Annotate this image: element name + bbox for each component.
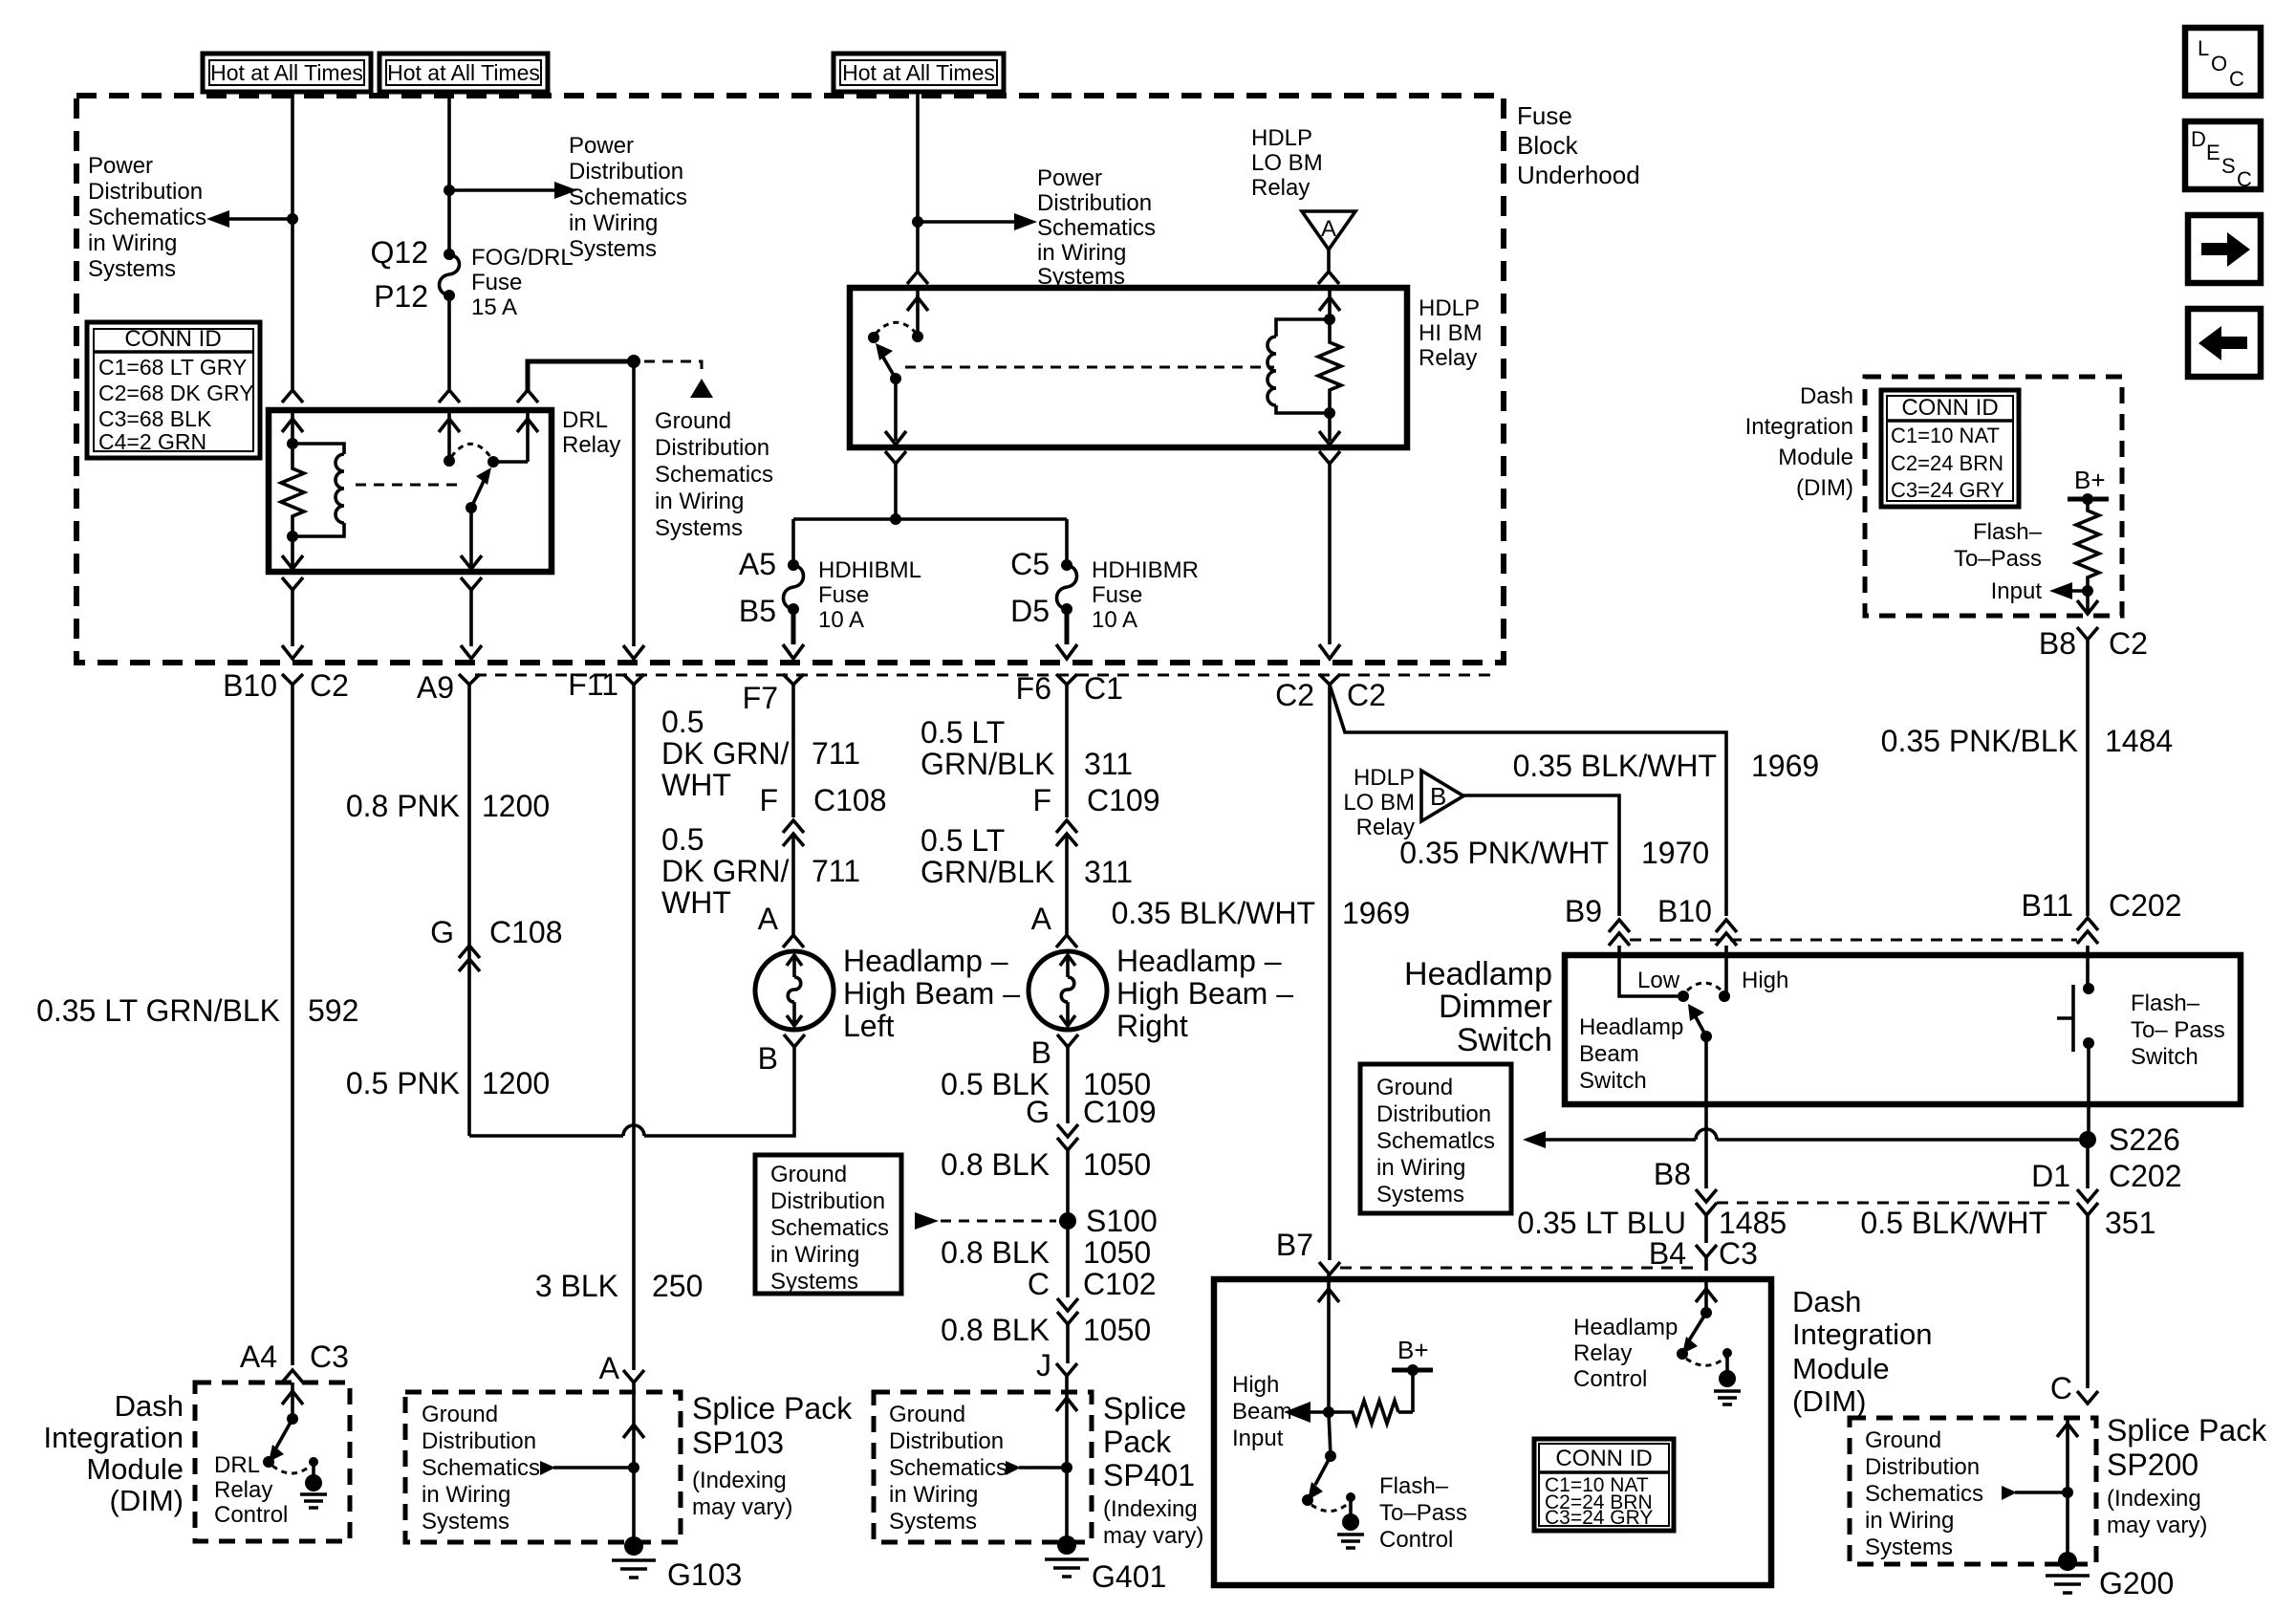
svg-text:DK GRN/: DK GRN/ [661, 736, 789, 771]
wire C2 feed down to connector row [1328, 464, 1332, 644]
svg-text:S100: S100 [1086, 1204, 1158, 1238]
svg-text:G: G [430, 915, 454, 949]
svg-text:Schematics: Schematics [1865, 1481, 1983, 1507]
svg-text:Systems: Systems [889, 1509, 977, 1535]
node junction hot2 [444, 185, 455, 196]
svg-text:Ground: Ground [1865, 1427, 1941, 1453]
DESC box [2185, 121, 2261, 189]
wire SP103 to ground [632, 1468, 636, 1541]
svg-text:Right: Right [1116, 1009, 1188, 1043]
left arrow box [2188, 309, 2261, 377]
svg-text:B8: B8 [1654, 1157, 1691, 1191]
svg-text:Block: Block [1517, 131, 1579, 160]
svg-text:Fuse: Fuse [818, 582, 869, 608]
node DRL switch left contact [447, 410, 451, 461]
svg-text:J: J [1036, 1348, 1051, 1382]
svg-text:C3: C3 [310, 1339, 349, 1374]
svg-text:FOG/DRL: FOG/DRL [471, 245, 574, 271]
svg-text:S226: S226 [2109, 1122, 2180, 1157]
svg-text:311: 311 [1084, 855, 1133, 889]
svg-text:Distribution: Distribution [422, 1428, 536, 1454]
node Low contact [1678, 991, 1689, 1002]
wire left fuse drop [791, 519, 795, 565]
connector fork into HI BM relay switch pin [907, 272, 928, 284]
svg-text:Splice: Splice [1103, 1391, 1186, 1426]
svg-text:Headlamp –: Headlamp – [843, 944, 1008, 978]
connector B10 double chevron up [1716, 920, 1737, 946]
svg-text:0.8 PNK: 0.8 PNK [346, 789, 460, 823]
svg-text:1200: 1200 [482, 789, 550, 823]
resistor HI BM internal [1318, 319, 1341, 413]
svg-text:0.35 LT GRN/BLK: 0.35 LT GRN/BLK [36, 993, 280, 1028]
svg-text:(Indexing: (Indexing [2107, 1486, 2201, 1512]
svg-text:0.5 LT: 0.5 LT [921, 823, 1005, 858]
svg-text:D5: D5 [1010, 594, 1050, 628]
svg-text:in Wiring: in Wiring [770, 1242, 859, 1268]
DIM box bottom right [1214, 1279, 1771, 1585]
svg-text:(Indexing: (Indexing [1103, 1496, 1198, 1522]
node HI BM coil bottom [1324, 407, 1335, 419]
svg-text:0.5 PNK: 0.5 PNK [346, 1066, 460, 1100]
relay link dashed DRL [356, 484, 461, 487]
svg-text:Hot at All Times: Hot at All Times [842, 60, 995, 85]
DRL Relay box [269, 410, 552, 572]
wire flash to pass down to S226 [2087, 1043, 2090, 1140]
svg-text:Relay: Relay [1573, 1340, 1632, 1366]
svg-text:10 A: 10 A [1092, 607, 1137, 633]
ground contact DRL relay control [309, 1457, 318, 1467]
node SP200 junction [2062, 1487, 2073, 1498]
svg-text:B: B [758, 1041, 778, 1076]
svg-text:Input: Input [1991, 578, 2043, 604]
switch arm flash to pass control [1315, 1456, 1331, 1485]
svg-text:A: A [599, 1351, 620, 1385]
svg-text:Distribution: Distribution [1376, 1101, 1491, 1127]
connector fork below DRL pin coil [282, 577, 303, 590]
svg-text:Control: Control [214, 1502, 288, 1528]
headlamp high beam right bulb [1029, 951, 1107, 1030]
svg-text:G: G [1026, 1095, 1050, 1129]
wire B10 into dimmer box [1724, 946, 1728, 996]
svg-text:S: S [2221, 154, 2236, 178]
wire into SP200 [2066, 1418, 2069, 1492]
wire 0.5 PNK corner to left headlamp ground with hop [469, 1046, 794, 1136]
svg-text:0.5: 0.5 [661, 705, 704, 739]
wire switch common to fuse feed junction [894, 464, 898, 519]
ground distribution triangle pointer [690, 379, 713, 398]
fuse HDHIBML 10A [788, 559, 799, 571]
LOC box [2185, 28, 2261, 96]
svg-text:Schematics: Schematics [1037, 215, 1156, 241]
fuse FOG/DRL 15A [444, 249, 455, 260]
inductor DRL coil loop [292, 444, 344, 536]
wire arrow from schematics SP200 [2002, 1486, 2017, 1500]
wire dashed to ground distribution box mid [941, 1220, 1056, 1223]
svg-text:C108: C108 [813, 783, 887, 817]
svg-text:F11: F11 [568, 667, 618, 702]
svg-text:Ground: Ground [889, 1402, 965, 1427]
resistor flash to pass input [2076, 499, 2099, 591]
svg-text:C: C [1028, 1267, 1050, 1301]
svg-text:(Indexing: (Indexing [692, 1468, 787, 1493]
ground distribution box mid solid [755, 1155, 901, 1294]
svg-text:Distribution: Distribution [88, 179, 203, 205]
switch arm headlamp beam [1695, 1015, 1706, 1036]
svg-text:Schematics: Schematics [889, 1455, 1007, 1481]
svg-text:HDHIBMR: HDHIBMR [1092, 557, 1199, 583]
svg-text:High Beam –: High Beam – [843, 976, 1020, 1011]
svg-text:C2: C2 [1347, 678, 1386, 712]
svg-text:Integration: Integration [1792, 1317, 1933, 1351]
svg-text:C1: C1 [1084, 671, 1123, 706]
svg-text:Headlamp –: Headlamp – [1116, 944, 1282, 978]
svg-text:in Wiring: in Wiring [1865, 1508, 1954, 1534]
svg-text:B+: B+ [1397, 1336, 1429, 1364]
svg-text:B11: B11 [2021, 888, 2073, 923]
node SP401 junction [1061, 1462, 1072, 1473]
svg-text:Module: Module [1792, 1352, 1890, 1385]
svg-text:C2: C2 [310, 668, 349, 703]
connector F11 [623, 674, 644, 685]
svg-text:C1=68 LT GRY: C1=68 LT GRY [98, 355, 247, 380]
connector B headlamp left [784, 1034, 805, 1047]
svg-text:Systems: Systems [88, 256, 176, 282]
wire SP200 to ground [2066, 1492, 2069, 1557]
svg-text:Ground: Ground [422, 1402, 498, 1427]
svg-text:Dash: Dash [1792, 1285, 1861, 1318]
switch throw dashed arc beam [1687, 983, 1722, 991]
svg-text:Flash–: Flash– [1973, 519, 2043, 545]
svg-text:Ground: Ground [770, 1162, 847, 1187]
svg-text:Distribution: Distribution [655, 435, 769, 461]
dashed connector line DIM top [1340, 1267, 1696, 1270]
svg-text:C3=68 BLK: C3=68 BLK [98, 406, 212, 431]
ground G103 [624, 1536, 643, 1556]
node junction hot3 [912, 216, 923, 228]
node ground distribution junction [627, 355, 640, 368]
svg-text:F7: F7 [743, 681, 778, 715]
svg-text:351: 351 [2105, 1206, 2155, 1240]
svg-text:C1=10 NAT: C1=10 NAT [1891, 424, 2000, 447]
Hot at All Times box 2 [379, 54, 548, 92]
svg-text:Hot at All Times: Hot at All Times [210, 60, 363, 85]
wire B8 to B4 [1704, 1215, 1708, 1243]
svg-text:WHT: WHT [661, 885, 731, 920]
connector A9 [459, 674, 480, 685]
wire S226 to ground distribution arrow with hop [1544, 1138, 2079, 1142]
svg-text:(DIM): (DIM) [110, 1484, 184, 1517]
svg-text:HDLP: HDLP [1419, 295, 1480, 321]
connector C2 C2 [1319, 674, 1340, 685]
wire B11 into flash to pass switch [2086, 946, 2090, 989]
wire D1 351 down [2086, 1215, 2090, 1388]
wire right fuse drop [1065, 519, 1069, 565]
svg-text:15 A: 15 A [471, 294, 517, 320]
node HI BM left contact [868, 332, 879, 343]
svg-text:B: B [1430, 782, 1446, 811]
svg-text:(DIM): (DIM) [1792, 1384, 1866, 1418]
svg-text:Headlamp: Headlamp [1573, 1315, 1678, 1340]
node SP103 junction [628, 1462, 639, 1473]
svg-text:in Wiring: in Wiring [569, 210, 658, 236]
svg-text:Left: Left [843, 1009, 894, 1043]
svg-text:P12: P12 [374, 279, 428, 314]
svg-text:WHT: WHT [661, 768, 731, 802]
Headlamp Dimmer Switch box [1565, 955, 2241, 1104]
headlamp high beam left bulb [755, 951, 834, 1030]
svg-text:Schematics: Schematics [88, 205, 206, 230]
svg-text:LO BM: LO BM [1251, 150, 1323, 176]
svg-text:SP103: SP103 [692, 1426, 784, 1460]
dashed connector line C202 top [1630, 939, 2077, 942]
svg-text:Schematlcs: Schematlcs [1376, 1128, 1495, 1154]
svg-text:Beam: Beam [1232, 1399, 1292, 1425]
svg-text:in Wiring: in Wiring [889, 1482, 978, 1508]
svg-text:B10: B10 [1657, 894, 1712, 928]
wire arrow flash to pass input [2070, 589, 2088, 593]
DIM dashed box bottom left [195, 1382, 350, 1541]
svg-text:Distribution: Distribution [889, 1428, 1004, 1454]
svg-text:1969: 1969 [1342, 896, 1410, 930]
svg-text:C102: C102 [1083, 1267, 1157, 1301]
svg-text:A9: A9 [417, 670, 454, 705]
wire hot3 feed down [916, 92, 920, 271]
connector fork below HI BM coil [1319, 451, 1340, 464]
wire into SP103 [632, 1392, 636, 1468]
CONN ID table DIM top right [1881, 390, 2019, 507]
svg-text:B5: B5 [739, 594, 776, 628]
svg-text:C4=2 GRN: C4=2 GRN [98, 429, 206, 454]
node DRL coil top [287, 438, 298, 449]
wire flash input down to box edge [2086, 591, 2090, 612]
svg-text:Switch: Switch [2131, 1044, 2199, 1070]
wire into HI BM switch contact [916, 288, 920, 337]
svg-text:Ground: Ground [1376, 1075, 1453, 1100]
wire arrow to Power Distribution right [449, 188, 556, 192]
connector B11 double chevron up [2077, 918, 2098, 944]
svg-text:(DIM): (DIM) [1796, 475, 1853, 501]
svg-text:C2=24 BRN: C2=24 BRN [1891, 451, 2004, 475]
wire triangle A to relay box [1327, 250, 1331, 271]
node flash to pass top contact [2083, 983, 2094, 994]
triangle A relay coil ref [1302, 211, 1355, 250]
svg-text:CONN ID: CONN ID [124, 326, 221, 352]
wire arrow from schematics SP103 [540, 1461, 555, 1475]
svg-text:Underhood: Underhood [1517, 161, 1640, 189]
svg-text:O: O [2211, 52, 2227, 76]
svg-text:C: C [2237, 167, 2252, 191]
svg-text:GRN/BLK: GRN/BLK [921, 747, 1054, 781]
svg-text:Power: Power [88, 153, 153, 179]
svg-text:1050: 1050 [1083, 1313, 1151, 1347]
svg-text:Pack: Pack [1103, 1425, 1172, 1459]
Hot at All Times box 1 [203, 54, 371, 92]
svg-text:A5: A5 [739, 547, 776, 581]
svg-text:1200: 1200 [482, 1066, 550, 1100]
svg-text:A4: A4 [240, 1339, 277, 1374]
triangle B relay contact ref [1421, 771, 1463, 821]
connector fork below DRL switch common [461, 577, 482, 590]
node flash to pass bottom contact [2083, 1037, 2094, 1049]
wire high beam input junction [1329, 1410, 1341, 1414]
svg-text:Systems: Systems [1376, 1182, 1464, 1208]
wire fuse feed horizontal [793, 517, 1067, 521]
wire F11 down from junction [632, 361, 636, 646]
svg-text:Schematics: Schematics [422, 1455, 540, 1481]
svg-text:D: D [2191, 127, 2206, 151]
wire 1484 down [2086, 640, 2090, 916]
svg-text:may vary): may vary) [692, 1494, 792, 1520]
connector fork into HI BM relay coil pin [1318, 272, 1339, 284]
svg-text:To–Pass: To–Pass [1954, 546, 2042, 572]
svg-text:Systems: Systems [655, 515, 743, 541]
svg-text:GRN/BLK: GRN/BLK [921, 855, 1054, 889]
svg-text:Flash–: Flash– [2131, 991, 2200, 1016]
svg-text:10 A: 10 A [818, 607, 864, 633]
svg-text:Dimmer: Dimmer [1439, 989, 1552, 1025]
svg-text:Power: Power [569, 133, 634, 159]
svg-text:Schematics: Schematics [569, 185, 687, 210]
svg-text:C202: C202 [2109, 1159, 2182, 1193]
Splice Pack SP200 dashed box [1850, 1418, 2096, 1564]
HDLP HI BM Relay box [850, 288, 1407, 447]
ground contact headlamp relay control [1722, 1348, 1732, 1358]
svg-text:0.5 BLK/WHT: 0.5 BLK/WHT [1860, 1206, 2047, 1240]
wire beam switch common down [1704, 1036, 1708, 1188]
svg-text:Control: Control [1573, 1366, 1647, 1392]
CONN ID table fuse block [87, 322, 260, 458]
svg-text:1970: 1970 [1641, 836, 1709, 870]
svg-text:DRL: DRL [562, 407, 608, 433]
wire B7 down inside DIM [1327, 1274, 1331, 1279]
switch arm DRL [471, 479, 485, 508]
svg-text:D1: D1 [2031, 1159, 2070, 1193]
svg-text:Systems: Systems [569, 236, 657, 262]
svg-text:F: F [1032, 783, 1051, 817]
switch arm headlamp relay control [1689, 1313, 1706, 1340]
svg-text:0.35 BLK/WHT: 0.35 BLK/WHT [1513, 749, 1717, 783]
svg-text:0.8 BLK: 0.8 BLK [941, 1313, 1050, 1347]
svg-text:0.35 BLK/WHT: 0.35 BLK/WHT [1112, 896, 1315, 930]
svg-text:in Wiring: in Wiring [422, 1482, 510, 1508]
svg-text:DRL: DRL [214, 1452, 260, 1478]
svg-text:Schematics: Schematics [655, 462, 773, 488]
switch throw dashed arc DRL [451, 444, 491, 458]
svg-text:0.8 BLK: 0.8 BLK [941, 1235, 1050, 1270]
svg-text:Relay: Relay [1251, 175, 1310, 201]
svg-text:C3=24 GRY: C3=24 GRY [1891, 478, 2004, 502]
node DRL switch right contact [493, 410, 528, 462]
svg-text:LO BM: LO BM [1343, 790, 1415, 816]
svg-text:High Beam –: High Beam – [1116, 976, 1293, 1011]
Hot at All Times box 3 [834, 54, 1004, 92]
svg-text:C202: C202 [2109, 888, 2182, 923]
connector fork B8 C2 below DIM [2077, 627, 2098, 640]
ground G401 [1057, 1535, 1076, 1555]
svg-text:0.35 PNK/WHT: 0.35 PNK/WHT [1399, 836, 1609, 870]
wire arrow from schematics SP401 [1006, 1461, 1021, 1475]
wire ground dist dashed stub [644, 361, 702, 375]
node flash input junction [2082, 585, 2093, 597]
inductor HI BM coil loop [1276, 319, 1330, 413]
svg-text:C: C [2050, 1371, 2072, 1405]
ground contact flash to pass control [1346, 1492, 1355, 1502]
svg-text:C2=68 DK GRY: C2=68 DK GRY [98, 381, 254, 405]
connector fork into DRL relay pin3 [517, 390, 538, 403]
svg-text:B: B [1031, 1035, 1051, 1070]
svg-text:A: A [1031, 902, 1052, 936]
wire right headlamp branch [1065, 834, 1069, 934]
wire headlamp relay control entry [1704, 1279, 1708, 1313]
wire into SP401 [1065, 1392, 1069, 1468]
svg-text:A: A [758, 902, 779, 936]
svg-text:Beam: Beam [1579, 1041, 1639, 1067]
svg-text:3 BLK: 3 BLK [535, 1269, 618, 1303]
svg-text:0.5: 0.5 [661, 822, 704, 857]
wire A9 feed to fuse block edge [469, 590, 473, 646]
relay link dashed HI BM [905, 366, 1274, 369]
node High contact [1719, 991, 1730, 1002]
svg-text:1969: 1969 [1751, 749, 1819, 783]
svg-text:Fuse: Fuse [1092, 582, 1142, 608]
svg-text:B4: B4 [1649, 1236, 1686, 1271]
svg-text:B8: B8 [2039, 626, 2076, 661]
connector B headlamp right [1057, 1034, 1078, 1047]
svg-text:Systems: Systems [770, 1269, 858, 1295]
svg-text:F: F [759, 783, 778, 817]
resistor DRL internal [281, 444, 304, 536]
svg-text:1485: 1485 [1719, 1206, 1787, 1240]
svg-text:C108: C108 [489, 915, 563, 949]
svg-text:may vary): may vary) [1103, 1523, 1203, 1549]
node DRL coil bottom [287, 531, 298, 542]
svg-text:Integration: Integration [1745, 414, 1853, 440]
connector fork B4 into DIM [1696, 1245, 1717, 1257]
svg-text:250: 250 [652, 1269, 703, 1303]
svg-text:may vary): may vary) [2107, 1513, 2207, 1538]
svg-text:Flash–: Flash– [1379, 1473, 1449, 1499]
ground G200 [2058, 1552, 2077, 1571]
connector B8 double chevron down [1696, 1189, 1717, 1215]
svg-text:Schematics: Schematics [770, 1215, 889, 1241]
svg-text:DK GRN/: DK GRN/ [661, 854, 789, 888]
svg-text:To–Pass: To–Pass [1379, 1500, 1467, 1526]
svg-text:G103: G103 [667, 1557, 742, 1592]
svg-text:High: High [1742, 968, 1788, 993]
connector B9 double chevron up [1609, 920, 1630, 946]
svg-text:Relay: Relay [1419, 345, 1477, 371]
svg-text:1050: 1050 [1083, 1235, 1151, 1270]
node DRL relay control switch top [287, 1413, 298, 1425]
switch throw dashed arc HI BM [876, 322, 916, 334]
svg-text:Splice Pack: Splice Pack [2107, 1413, 2267, 1448]
svg-text:Switch: Switch [1457, 1022, 1552, 1058]
switch throw dashed arc relay control [1686, 1358, 1725, 1365]
svg-text:Distribution: Distribution [1865, 1454, 1980, 1480]
svg-text:592: 592 [308, 993, 358, 1028]
connector F6 C1 [1056, 674, 1077, 685]
wire right headlamp ground down [1066, 1047, 1070, 1123]
svg-text:in Wiring: in Wiring [1376, 1155, 1465, 1181]
wire hot2 feed down to fuse [447, 92, 451, 253]
svg-text:0.35 PNK/BLK: 0.35 PNK/BLK [1881, 724, 2078, 758]
svg-text:711: 711 [812, 854, 860, 888]
svg-text:L: L [2198, 36, 2209, 60]
svg-text:Hot at All Times: Hot at All Times [387, 60, 540, 85]
svg-text:311: 311 [1084, 747, 1133, 781]
node S100 [1059, 1212, 1076, 1230]
svg-text:C5: C5 [1010, 547, 1050, 581]
